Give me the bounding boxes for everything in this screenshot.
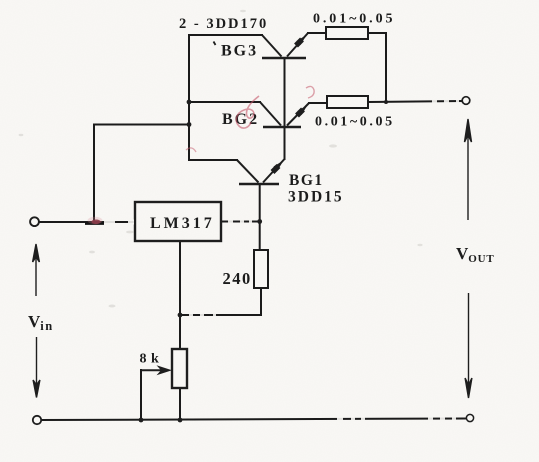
wire bases vertical BG3-BG2-BG1 bbox=[284, 58, 286, 159]
resistor 240 bbox=[254, 250, 268, 288]
wire pot bottom bbox=[179, 388, 181, 420]
transistor BG2 bbox=[260, 102, 309, 127]
wire bottom rail bbox=[41, 419, 466, 421]
wire top to BG3 collector bbox=[189, 34, 262, 36]
junction dot rail/input branch bbox=[187, 122, 192, 127]
wire R1 to corner bbox=[368, 32, 386, 34]
wire collector rail bbox=[188, 35, 190, 160]
Vin arrow down bbox=[33, 337, 40, 398]
faint scan smudges bbox=[19, 10, 423, 308]
transistor BG3 bbox=[262, 33, 308, 58]
terminal output top bbox=[462, 97, 470, 105]
red blob over junction bbox=[91, 220, 100, 225]
wire BG1 collector horizontal bbox=[189, 159, 237, 161]
junction dot emitter resistors output bbox=[384, 100, 388, 104]
red mark at rail bend bbox=[186, 148, 196, 152]
wire 240 bottom down bbox=[260, 288, 262, 315]
potentiometer 8k body bbox=[172, 349, 187, 388]
svg-text:BG3: BG3 bbox=[221, 43, 258, 60]
transistor BG1 bbox=[237, 159, 285, 184]
tick mark before BG3 bbox=[214, 42, 216, 46]
junction thick mark bbox=[85, 222, 104, 225]
resistor R emitter bottom 0.01~0.05 bbox=[327, 96, 368, 108]
wire adj node horizontal bbox=[180, 314, 261, 316]
red scribble near BG2 bbox=[236, 96, 259, 128]
wire LM317 adj down bbox=[179, 241, 181, 349]
arrow BG3 emitter bbox=[296, 35, 307, 46]
svg-text:0.01~0.05: 0.01~0.05 bbox=[313, 12, 395, 27]
terminal input bottom bbox=[33, 416, 41, 424]
arrow BG2 emitter bbox=[297, 105, 308, 116]
wire left branch horizontal bbox=[94, 124, 189, 126]
arrow BG1 emitter bbox=[273, 161, 284, 173]
wire BG1 base down to LM317 out node bbox=[259, 184, 261, 250]
wire input top bbox=[39, 221, 135, 223]
terminal input top bbox=[30, 217, 39, 226]
svg-text:8k: 8k bbox=[140, 352, 164, 367]
wire BG3 emitter to R1 bbox=[308, 32, 326, 34]
Vout arrow down bbox=[465, 293, 472, 398]
resistor R emitter top 0.01~0.05 bbox=[326, 27, 368, 39]
wire pot wiper down bbox=[140, 370, 142, 420]
junction dot wiper on bottom rail bbox=[139, 418, 144, 423]
wire BG2 emitter to R2 bbox=[309, 102, 327, 104]
wire left branch vertical bbox=[93, 125, 95, 223]
junction dot LM317 out / BG1 base / 240 bbox=[257, 219, 262, 224]
red curl near BG2 emitter bbox=[306, 86, 314, 98]
svg-text:2 - 3DD170: 2 - 3DD170 bbox=[179, 16, 268, 32]
IC LM317 box bbox=[135, 202, 221, 241]
terminal output bottom bbox=[466, 414, 473, 421]
scan fading gaps on wires bbox=[104, 99, 459, 422]
svg-text:LM317: LM317 bbox=[150, 215, 215, 232]
Vin arrow up bbox=[33, 244, 40, 296]
svg-text:3DD15: 3DD15 bbox=[288, 189, 344, 206]
wire R2 to output terminal bbox=[368, 101, 462, 102]
Vout arrow up bbox=[465, 119, 472, 220]
junction dot rail/BG2 collector bbox=[187, 100, 192, 105]
svg-text:240: 240 bbox=[223, 269, 252, 288]
wire LM317 output bbox=[221, 221, 260, 223]
junction dot pot bottom on bottom rail bbox=[178, 418, 183, 423]
junction dot ADJ node bbox=[178, 313, 183, 318]
wire BG2 collector horizontal bbox=[189, 101, 260, 103]
svg-text:BG1: BG1 bbox=[289, 172, 324, 189]
svg-text:0.01~0.05: 0.01~0.05 bbox=[315, 115, 395, 130]
potentiometer wiper arrow bbox=[141, 369, 162, 371]
wire corner down to output wire bbox=[385, 33, 387, 102]
